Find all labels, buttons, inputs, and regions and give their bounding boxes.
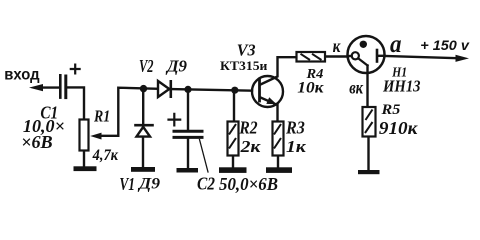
- svg-text:Д9: Д9: [165, 57, 187, 76]
- svg-text:×6В: ×6В: [21, 132, 53, 152]
- svg-text:2к: 2к: [239, 137, 260, 156]
- svg-text:R3: R3: [285, 117, 305, 137]
- svg-text:к: к: [333, 36, 341, 56]
- svg-text:R5: R5: [380, 102, 400, 118]
- svg-text:КТ315и: КТ315и: [220, 58, 268, 73]
- svg-text:910к: 910к: [379, 118, 418, 138]
- svg-text:4,7к: 4,7к: [92, 147, 119, 164]
- svg-text:вк: вк: [349, 78, 363, 98]
- svg-text:V3: V3: [237, 41, 256, 60]
- svg-text:вход: вход: [4, 66, 39, 83]
- svg-text:1к: 1к: [286, 137, 306, 156]
- svg-text:С2: С2: [197, 173, 215, 193]
- svg-text:a: a: [390, 31, 402, 58]
- svg-text:50,0×6В: 50,0×6В: [219, 174, 278, 194]
- svg-text:V1: V1: [119, 174, 135, 194]
- svg-text:10к: 10к: [297, 80, 324, 97]
- svg-text:R1: R1: [93, 106, 110, 125]
- svg-text:ИН13: ИН13: [382, 76, 420, 95]
- svg-text:+ 150 v: + 150 v: [420, 38, 470, 53]
- svg-text:R2: R2: [239, 117, 258, 137]
- svg-text:V2: V2: [139, 56, 154, 76]
- svg-text:Д9: Д9: [137, 176, 160, 193]
